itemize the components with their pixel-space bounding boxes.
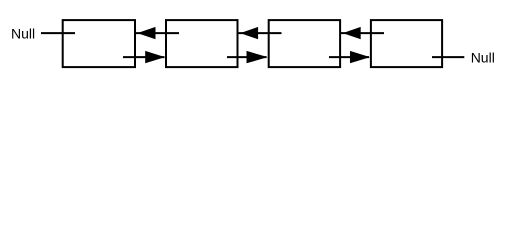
node N1 box: [63, 20, 135, 67]
wire N2 next pointer line: [227, 56, 267, 58]
svg-text:Null: Null: [11, 25, 35, 41]
arrowhead N2 next to N3: [247, 51, 268, 63]
wire N1 next pointer line: [123, 56, 165, 58]
wire head null into N1 prev field: [41, 32, 75, 34]
wire N4 next to tail null: [432, 56, 464, 58]
node N3 box: [269, 20, 340, 67]
arrowhead N3 prev to N2: [240, 27, 258, 39]
node N4 box: [371, 20, 442, 67]
arrowhead N3 next to N4: [350, 51, 370, 63]
wire N2 prev pointer line: [136, 32, 180, 34]
wire N4 prev pointer line: [341, 32, 384, 34]
arrowhead N4 prev to N3: [343, 27, 361, 39]
wire N3 prev pointer line: [239, 32, 282, 34]
arrowhead N1 next to N2: [145, 51, 165, 63]
svg-text:Null: Null: [471, 49, 495, 65]
wire N3 next pointer line: [329, 56, 369, 58]
arrowhead N2 prev to N1: [137, 27, 155, 39]
node N2 box: [166, 20, 238, 67]
